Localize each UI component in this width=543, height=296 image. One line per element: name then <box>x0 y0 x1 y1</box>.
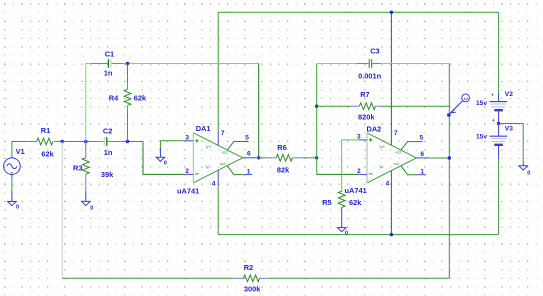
svg-text:39k: 39k <box>101 170 114 179</box>
svg-text:6: 6 <box>247 150 251 157</box>
svg-text:3: 3 <box>357 134 361 141</box>
svg-text:2: 2 <box>185 168 189 175</box>
svg-text:300k: 300k <box>244 285 261 294</box>
op-amp DA1 pin 1 stub <box>227 166 243 175</box>
svg-text:V2: V2 <box>505 91 513 98</box>
junction R6 right / mid riser <box>315 156 318 159</box>
junction top rail / DA2 pin7 <box>390 11 393 14</box>
wire C3 top left <box>317 63 357 65</box>
op-amp DA2 minus mark <box>369 173 373 175</box>
wire V1 to R1 <box>12 142 29 156</box>
wire node C to OA1 pin2 <box>143 142 185 175</box>
svg-text:4: 4 <box>386 180 390 187</box>
svg-text:V+: V+ <box>379 145 385 151</box>
svg-text:15v: 15v <box>476 134 487 141</box>
svg-text:os2: os2 <box>395 151 401 155</box>
svg-text:82k: 82k <box>277 165 290 174</box>
wire OA1 pin4 drop <box>217 185 219 235</box>
svg-text:R3: R3 <box>73 164 82 173</box>
op-amp DA2 pin 4 stub <box>390 171 392 185</box>
svg-text:0.001n: 0.001n <box>358 72 381 81</box>
wire right feedback riser <box>448 64 450 279</box>
resistor R2 <box>235 277 244 279</box>
wire node A drop to feedback rail <box>61 142 63 279</box>
op-amp DA1 plus mark <box>195 140 199 142</box>
switch key circle <box>462 94 470 102</box>
wire OA1 pin3 to ground <box>160 141 184 150</box>
svg-text:2: 2 <box>357 168 361 175</box>
op-amp DA1 triangle <box>193 133 242 183</box>
op-amp DA1 pin 3 stub <box>185 140 194 142</box>
junction OA1 output node <box>257 156 260 159</box>
junction bottom rail / DA2 pin4 <box>390 233 393 236</box>
op-amp DA1 pin 5 stub <box>227 142 244 151</box>
wire R7 right <box>383 105 449 107</box>
op-amp DA1 pin 7 stub <box>217 132 219 146</box>
node B junction (R3 / C1 loop) <box>84 140 87 143</box>
svg-text:uA741: uA741 <box>177 186 199 195</box>
wire C1 loop top left <box>86 63 91 65</box>
capacitor C3 <box>357 63 369 65</box>
svg-text:0: 0 <box>345 231 348 237</box>
svg-text:62k: 62k <box>41 149 54 158</box>
AC source V1 <box>4 158 21 175</box>
svg-text:3: 3 <box>185 134 189 141</box>
wire OA1 pin7 riser <box>217 12 219 132</box>
wire battery top drop <box>498 12 500 93</box>
svg-text:62k: 62k <box>134 93 147 102</box>
op-amp DA1 minus mark <box>195 173 199 175</box>
wire DA2 pin4 drop <box>390 185 392 235</box>
svg-text:V3: V3 <box>505 126 513 133</box>
op-amp DA2 pin 5 stub <box>401 142 418 151</box>
ground at R3 stem <box>85 192 87 202</box>
svg-text:V-: V- <box>379 165 384 171</box>
wire C1 loop left riser <box>85 64 87 142</box>
wire mid riser (C3/R7 loop left) <box>316 64 318 175</box>
wire R1 to node A to C2 <box>60 141 91 143</box>
wire battery midpoint to ground <box>499 124 524 164</box>
svg-text:R1: R1 <box>41 126 50 135</box>
svg-text:C1: C1 <box>105 49 114 58</box>
svg-text:7: 7 <box>221 130 225 137</box>
wire feedback rail left segment <box>62 277 235 279</box>
svg-text:0: 0 <box>90 205 93 211</box>
wire feedback rail right segment <box>268 277 449 279</box>
op-amp DA1 pin 4 stub <box>217 170 219 185</box>
svg-text:15v: 15v <box>476 100 487 107</box>
svg-text:os2: os2 <box>222 151 228 155</box>
svg-text:DA1: DA1 <box>196 124 211 133</box>
wire C3 top right <box>381 63 449 65</box>
ground at V1 stem <box>11 175 13 178</box>
ground at R3 <box>82 201 91 205</box>
svg-text:820k: 820k <box>358 113 375 122</box>
junction between batteries <box>497 122 500 125</box>
wire R6 to mid riser <box>301 157 317 159</box>
wire C2 to node C <box>122 141 143 143</box>
battery V2 <box>490 101 508 103</box>
wire C1 to OA1 output riser <box>124 63 259 65</box>
op-amp DA2 pin 7 stub <box>390 132 392 145</box>
switch fixed contact chevron <box>451 108 456 112</box>
wire battery bottom riser <box>498 160 500 235</box>
svg-text:+: + <box>491 93 494 99</box>
svg-text:C2: C2 <box>103 126 112 135</box>
ground at OA1 pin3 <box>156 157 165 161</box>
svg-text:62k: 62k <box>349 198 362 207</box>
svg-text:1n: 1n <box>104 148 113 157</box>
svg-text:V1: V1 <box>16 147 25 156</box>
wire OA1 output to R6 <box>256 157 267 159</box>
svg-text:R4: R4 <box>109 93 119 102</box>
svg-text:1n: 1n <box>104 68 113 77</box>
battery V3 <box>498 124 500 137</box>
resistor R6 <box>267 157 276 159</box>
svg-text:0: 0 <box>16 205 19 211</box>
svg-text:0: 0 <box>527 170 530 176</box>
svg-text:os1: os1 <box>220 162 226 166</box>
resistor R7 <box>352 105 360 107</box>
switch lever <box>450 101 463 114</box>
capacitor C1 <box>91 63 108 65</box>
ground at R5 <box>337 228 346 232</box>
capacitor C2 <box>91 141 104 143</box>
svg-text:uA741: uA741 <box>345 186 367 195</box>
resistor R5 <box>341 190 343 193</box>
wire DA2 pin7 riser <box>390 12 392 132</box>
ground at OA1 pin3 stem <box>159 148 161 157</box>
op-amp DA2 pin 6 output stub <box>416 157 429 159</box>
svg-text:1: 1 <box>247 169 251 176</box>
op-amp DA2 pin 1 stub <box>401 166 417 175</box>
wire bottom power rail <box>218 234 498 236</box>
svg-text:os1: os1 <box>393 162 399 166</box>
wire R7 left <box>317 105 352 107</box>
node A junction <box>61 140 64 143</box>
svg-text:R5: R5 <box>322 198 331 207</box>
wire top power rail <box>218 11 498 13</box>
ground at V1 <box>8 202 17 206</box>
wire DA2 output to feedback riser <box>430 157 450 159</box>
svg-text:6: 6 <box>420 151 424 158</box>
wire OA1 output riser from C1 wire <box>258 64 260 158</box>
svg-text:5: 5 <box>420 134 424 141</box>
svg-text:R7: R7 <box>360 90 369 99</box>
op-amp DA2 plus mark <box>369 139 373 141</box>
node C junction (R4 bottom) <box>126 140 129 143</box>
op-amp DA2 pin 2 stub <box>359 173 368 175</box>
ground at battery midpoint <box>519 166 528 170</box>
wire DA2 pin3 corner down to R5 <box>342 140 359 191</box>
svg-text:R6: R6 <box>277 143 286 152</box>
svg-text:4: 4 <box>212 181 216 188</box>
svg-text:+: + <box>492 118 495 124</box>
svg-text:7: 7 <box>394 130 398 137</box>
junction mid riser / R7 <box>315 105 318 108</box>
svg-text:0: 0 <box>164 160 167 166</box>
svg-text:V-: V- <box>206 164 211 170</box>
svg-text:V+: V+ <box>206 145 212 151</box>
wire mid riser corner to DA2 pin2 <box>317 173 359 175</box>
switch terminal dot <box>447 113 450 116</box>
svg-text:1: 1 <box>420 169 424 176</box>
ground at battery midpoint stem <box>522 163 524 166</box>
resistor R1 <box>29 141 37 143</box>
resistor R3 <box>85 142 87 151</box>
junction C1 / R4 top <box>126 62 129 65</box>
svg-text:R2: R2 <box>244 263 253 272</box>
resistor R4 <box>127 64 129 83</box>
op-amp DA1 pin 6 output stub <box>243 157 256 159</box>
V1 polarity tick <box>10 172 13 174</box>
op-amp DA2 pin 3 stub <box>359 139 368 141</box>
svg-text:C3: C3 <box>370 47 379 56</box>
op-amp DA2 triangle <box>367 133 416 183</box>
op-amp DA1 pin 2 stub <box>185 173 194 175</box>
svg-text:DA2: DA2 <box>367 124 382 133</box>
junction DA2 output / feedback riser <box>448 156 451 159</box>
svg-text:5: 5 <box>245 134 249 141</box>
